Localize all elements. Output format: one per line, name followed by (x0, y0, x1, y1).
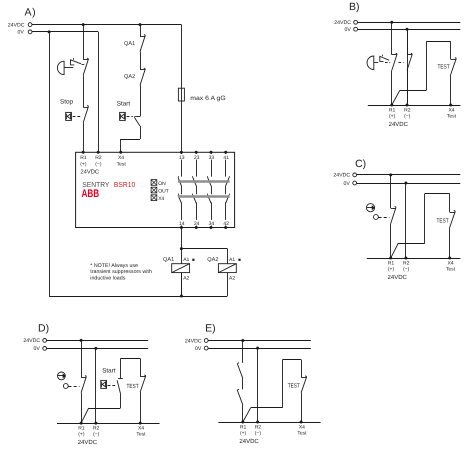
pin R2 (D) (94, 422, 97, 425)
pin 34 (210, 226, 213, 229)
wire bottom bus (B) (368, 105, 461, 107)
wire branch to QA2 coil (181, 248, 227, 250)
wire 24VDC to QA1 contact (140, 25, 142, 36)
svg-text:D): D) (38, 323, 49, 335)
svg-text:A1: A1 (229, 257, 235, 263)
node coil branch (180, 247, 183, 250)
wire 24VDC rail (C) (357, 174, 461, 176)
wire bottom bus (E) (218, 422, 320, 424)
wire 0V rail (D) (47, 348, 149, 350)
Stop NC contact (83, 107, 88, 109)
wire 24VDC to e-stop contact (83, 25, 85, 60)
mechanical link (D) (68, 386, 79, 388)
suppressor mark QA1 (192, 259, 194, 261)
terminal 0V (A) (28, 30, 32, 34)
svg-text:ABB: ABB (82, 188, 100, 200)
wire bottom bus (C) (367, 258, 461, 260)
mechanical link Stop (73, 116, 81, 118)
svg-text:(+): (+) (78, 432, 85, 438)
wire QA2 to Start contact (140, 85, 142, 116)
wire contact2 to R1 (E) (242, 405, 244, 422)
node 0V/R2 (C) (404, 182, 407, 185)
svg-text:A1: A1 (183, 257, 189, 263)
mechanical link (C) (379, 217, 390, 219)
svg-text:24VDC: 24VDC (185, 338, 202, 344)
wire test loop (B) (450, 42, 452, 60)
svg-text:A): A) (25, 6, 37, 18)
external contact 1 (E) (237, 364, 243, 379)
node on 0V rail (left return) (48, 30, 51, 33)
pin 14 (180, 226, 183, 229)
wire 0V rail (B) (358, 29, 461, 31)
wire contact1 to contact2 (E) (242, 378, 244, 389)
svg-text:Test: Test (446, 266, 456, 272)
svg-text:24VDC: 24VDC (388, 274, 408, 281)
wire 24VDC to e-stop ch1 (B) (391, 22, 393, 55)
svg-text:X4: X4 (158, 196, 164, 202)
svg-text:34: 34 (209, 221, 215, 227)
terminal 24VDC (D) (43, 339, 47, 343)
wire test loop (C) (449, 194, 451, 213)
svg-text:Test: Test (136, 432, 146, 438)
node 0V/R2 (B) (406, 28, 409, 31)
svg-text:(+): (+) (389, 113, 396, 119)
svg-text:TEST: TEST (127, 383, 139, 390)
contact QA2 NC (140, 69, 145, 71)
wire TEST to X4 (E) (301, 393, 303, 422)
pin 13 (180, 151, 183, 154)
output contact path 13-14 (181, 152, 183, 176)
wire 24VDC rail (D) (47, 340, 149, 342)
svg-text:TEST: TEST (288, 382, 300, 389)
pin X4 (E) (300, 421, 303, 424)
interlock actuator key (C) (366, 204, 374, 212)
indicator LED OUT (151, 187, 157, 193)
svg-text:24VDC: 24VDC (334, 20, 351, 26)
node 24VDC/R1 (D) (80, 339, 83, 342)
svg-text:33: 33 (209, 155, 215, 161)
pin X4 (B) (449, 104, 452, 107)
svg-text:23: 23 (194, 155, 200, 161)
svg-text:Start: Start (117, 101, 131, 108)
svg-text:(+): (+) (388, 266, 395, 272)
interlock NC contact (D) (81, 377, 86, 379)
TEST NO contact (D) (140, 376, 146, 378)
svg-text:Stop: Stop (60, 98, 73, 105)
e-stop latch symbol (B) (380, 56, 389, 61)
pin 41 (224, 151, 227, 154)
svg-text:24VDC: 24VDC (389, 121, 409, 128)
svg-text:TEST: TEST (438, 63, 450, 70)
wire R2 drop (B) (407, 29, 409, 105)
wire TEST to X4 (C) (449, 227, 451, 258)
wire 24VDC to interlock contact (D) (81, 340, 83, 377)
svg-text:X4: X4 (118, 155, 124, 161)
pin X4 (A) (119, 151, 122, 154)
pin X4 (D) (139, 422, 142, 425)
TEST NO contact (E) (301, 377, 307, 379)
suppressor mark QA2 (238, 259, 240, 261)
svg-text:24VDC: 24VDC (78, 439, 98, 446)
pin R2 (B) (406, 104, 409, 107)
mechanical link Start (D) (108, 385, 116, 387)
svg-text:24VDC: 24VDC (8, 22, 25, 28)
svg-text:E): E) (205, 323, 216, 335)
svg-text:max 6 A gG: max 6 A gG (190, 95, 226, 102)
svg-text:0V: 0V (195, 346, 202, 352)
indicator LED ON (151, 180, 157, 186)
e-stop mushroom head (B) (367, 56, 374, 70)
pin 33 (210, 151, 213, 154)
wire R2 drop (E) (257, 348, 259, 422)
output contact path 23-24 (196, 152, 198, 176)
pin R1 (C) (389, 257, 392, 260)
interlock actuator key (D) (58, 372, 66, 380)
wire QA1 A2 to bus (181, 273, 183, 296)
svg-text:24VDC: 24VDC (80, 168, 99, 175)
pin R1 (D) (80, 422, 83, 425)
node on 24VDC rail (start branch) (139, 23, 142, 26)
safety relay U1 SENTRY BSR10 outline (76, 152, 235, 227)
pin 24 (195, 226, 198, 229)
svg-text:R2: R2 (95, 155, 102, 161)
svg-text:A2: A2 (183, 276, 189, 282)
svg-text:(+): (+) (240, 430, 247, 436)
wire contact to R1 (C) (390, 224, 392, 258)
terminal 0V (B) (354, 27, 358, 31)
coil QA1 (172, 264, 190, 273)
svg-text:* NOTE! Always use: * NOTE! Always use (90, 263, 138, 269)
wire 0V to e-stop ch2 (B) (407, 29, 409, 55)
wire Stop to R1 (83, 123, 85, 153)
pin R2 (C) (404, 257, 407, 260)
wire 14 to coil branch (181, 228, 183, 297)
wire 0V rail (E) (208, 348, 311, 350)
svg-text:B): B) (349, 1, 360, 13)
node 24VDC/R1 (E) (241, 339, 244, 342)
wire 24VDC rail (E) (208, 340, 311, 342)
svg-text:C): C) (355, 158, 366, 170)
output contact path 33-34 (211, 152, 213, 176)
wire left 0V return (49, 32, 51, 296)
wire Start to X4 jog (140, 126, 142, 139)
wire 0V bottom bus (A) (49, 296, 227, 298)
svg-text:24VDC: 24VDC (239, 438, 259, 445)
interlock roller (C) (374, 215, 379, 220)
e-stop NC contact ch1 (B) (392, 54, 397, 56)
wire 0V drop to R2 (98, 32, 100, 152)
svg-text:QA2: QA2 (207, 257, 218, 263)
fuse F1 max 6 A gG (178, 88, 184, 101)
wire bottom bus (D) (57, 423, 160, 425)
wire R2 drop (C) (405, 183, 407, 258)
wire test loop (E) (301, 360, 303, 378)
wire R2 drop (D) (95, 348, 97, 423)
pin X4 (C) (448, 257, 451, 260)
indicator LED X4 (151, 195, 157, 201)
wire 24VDC rail (A) (32, 24, 181, 26)
node 24VDC/R1 (C) (389, 173, 392, 176)
TEST NO contact (C) (450, 212, 456, 214)
svg-text:ON: ON (158, 181, 166, 187)
svg-text:42: 42 (223, 221, 229, 227)
external contact 2 (E) (237, 390, 243, 405)
svg-text:24VDC: 24VDC (333, 173, 350, 179)
svg-text:(−): (−) (255, 430, 262, 436)
node 24VDC/R1 (B) (390, 21, 393, 24)
svg-text:transient suppressors with: transient suppressors with (90, 269, 152, 275)
mechanical link Start (A) (127, 116, 133, 118)
interlock roller (D) (63, 384, 68, 389)
coil QA2 (218, 264, 236, 273)
svg-text:(−): (−) (93, 432, 100, 438)
Stop push-button actuator (66, 112, 72, 120)
pin R1 (B) (390, 104, 393, 107)
forced-guided linkage bar upper (178, 180, 230, 182)
output contact path 41-42 (225, 152, 227, 176)
svg-text:24: 24 (194, 221, 200, 227)
svg-text:Test: Test (117, 162, 127, 168)
wire loop to TEST (D) (140, 359, 142, 377)
svg-text:R1: R1 (80, 155, 87, 161)
wire ch2 to R2 (B) (407, 70, 409, 105)
wire 24VDC rail (B) (358, 22, 461, 24)
wire contact to R1 (D) (81, 393, 83, 423)
mechanical link (B) (385, 62, 390, 64)
svg-text:41: 41 (223, 155, 229, 161)
svg-text:0V: 0V (17, 30, 24, 36)
terminal 0V (E) (204, 346, 208, 350)
terminal 24VDC (C) (353, 173, 357, 177)
svg-text:TEST: TEST (437, 217, 449, 224)
wire 24VDC to interlock contact (C) (390, 175, 392, 208)
node on 24VDC rail (R1 branch) (82, 23, 85, 26)
Start NO contact (D) (118, 378, 123, 380)
terminal 0V (C) (353, 181, 357, 185)
emergency stop latch symbol (71, 60, 82, 65)
pin 23 (195, 151, 198, 154)
svg-text:A2: A2 (229, 276, 235, 282)
mechanical link e-stop to contact (82, 64, 86, 66)
forced-guided linkage bar lower (178, 195, 230, 197)
wire ch1 to R1 (B) (391, 70, 393, 105)
svg-text:OUT: OUT (158, 188, 169, 194)
svg-text:0V: 0V (34, 346, 41, 352)
e-stop NC contact ch2 (B) (407, 54, 412, 56)
wire start loop (D) (120, 359, 122, 379)
node 0V/R2 (D) (94, 347, 97, 350)
svg-text:13: 13 (179, 155, 185, 161)
wire QA2 A2 to bus (227, 273, 229, 296)
emergency stop actuator (mushroom head) (57, 61, 64, 74)
pin 42 (224, 226, 227, 229)
contact QA1 NC (140, 36, 145, 38)
terminal 24VDC (B) (354, 20, 358, 24)
svg-text:(−): (−) (95, 162, 102, 168)
wire e-stop to Stop contact (83, 75, 85, 107)
svg-text:24VDC: 24VDC (23, 338, 40, 344)
wire 0V rail (C) (357, 183, 461, 185)
svg-text:QA1: QA1 (163, 257, 174, 263)
pin R2 (E) (256, 421, 259, 424)
svg-text:Start: Start (102, 368, 116, 375)
wire QA1 to QA2 (140, 52, 142, 70)
svg-text:(−): (−) (403, 266, 410, 272)
wire TEST to X4 (D) (140, 392, 142, 423)
terminal 0V (D) (43, 347, 47, 351)
svg-text:0V: 0V (344, 181, 351, 187)
node QA1 A2 on bus (180, 295, 183, 298)
Start push-button actuator (D) (101, 380, 107, 388)
terminal 24VDC (E) (204, 339, 208, 343)
terminal 24VDC (A) (28, 23, 32, 27)
wire TEST to X4 (B) (450, 75, 452, 106)
pin R2 (A) (97, 151, 100, 154)
e-stop NC contact (83, 59, 88, 61)
svg-text:Test: Test (297, 430, 307, 436)
node 0V/R2 (E) (256, 347, 259, 350)
Start push-button actuator (A) (120, 112, 126, 120)
svg-text:14: 14 (179, 221, 185, 227)
svg-text:inductive loads: inductive loads (90, 275, 125, 281)
svg-text:(+): (+) (80, 162, 87, 168)
svg-text:BSR10: BSR10 (114, 180, 135, 189)
pin R1 (A) (82, 151, 85, 154)
svg-text:QA1: QA1 (124, 41, 135, 47)
wire 0V rail (A) (32, 31, 98, 33)
wire 24VDC to contact 1 (E) (242, 341, 244, 363)
svg-text:(−): (−) (404, 113, 411, 119)
wire 24VDC rail corner to fuse (181, 25, 183, 153)
svg-text:Test: Test (447, 113, 457, 119)
pin R1 (E) (241, 421, 244, 424)
svg-text:QA2: QA2 (124, 74, 135, 80)
TEST NO contact (B) (451, 59, 457, 61)
interlock NC contact (C) (391, 208, 396, 210)
Start NO contact (A) (134, 116, 140, 118)
svg-text:0V: 0V (344, 27, 351, 33)
